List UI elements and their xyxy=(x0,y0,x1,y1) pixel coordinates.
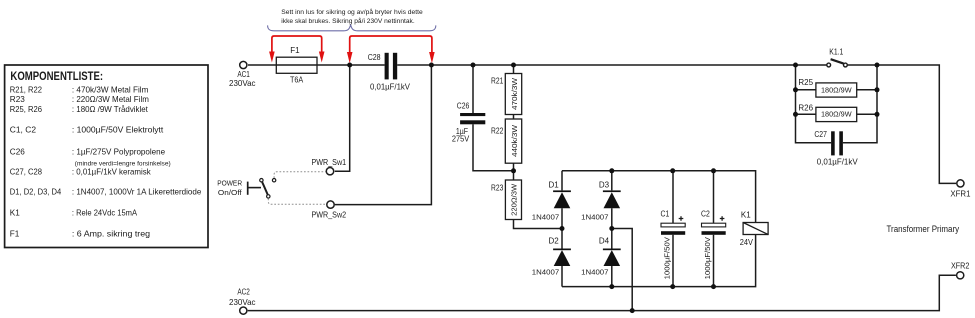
svg-text:C2: C2 xyxy=(701,210,710,219)
svg-text:Transformer Primary: Transformer Primary xyxy=(887,224,960,234)
svg-text:C26: C26 xyxy=(10,147,25,156)
svg-text:0,01µF/1kV: 0,01µF/1kV xyxy=(370,83,411,92)
svg-text:D2: D2 xyxy=(549,237,560,246)
svg-text:C1: C1 xyxy=(661,210,670,219)
svg-text:R25: R25 xyxy=(798,78,813,87)
svg-text:R25, R26: R25, R26 xyxy=(10,105,43,114)
svg-text:: 1000µF/50V Elektrolytt: : 1000µF/50V Elektrolytt xyxy=(72,126,164,135)
svg-text:1N4007: 1N4007 xyxy=(532,267,559,276)
svg-text:0,01µF/1kV: 0,01µF/1kV xyxy=(817,158,859,167)
svg-text:1N4007: 1N4007 xyxy=(581,267,608,276)
svg-text:AC2: AC2 xyxy=(237,288,250,297)
svg-text:440k/3W: 440k/3W xyxy=(512,125,519,157)
svg-text:PWR_Sw1: PWR_Sw1 xyxy=(312,158,347,167)
svg-text:: 1µF/275V Polypropolene: : 1µF/275V Polypropolene xyxy=(72,147,166,156)
svg-text:: 1N4007, 1000Vr 1A Likeretter: : 1N4007, 1000Vr 1A Likeretterdiode xyxy=(72,188,202,197)
svg-text:ikke skal brukes. Sikring på/i: ikke skal brukes. Sikring på/i 230V nett… xyxy=(281,17,415,25)
svg-text:T6A: T6A xyxy=(290,76,304,85)
svg-text:R21: R21 xyxy=(491,77,504,86)
svg-text:AC1: AC1 xyxy=(237,70,250,79)
svg-text:1000µF/50V: 1000µF/50V xyxy=(664,237,671,280)
svg-text:230Vac: 230Vac xyxy=(229,79,256,88)
svg-text:Sett inn lus for sikring og av: Sett inn lus for sikring og av/på bryter… xyxy=(281,8,423,16)
svg-text:230Vac: 230Vac xyxy=(229,298,256,307)
svg-text:D3: D3 xyxy=(599,180,610,189)
svg-text:1N4007: 1N4007 xyxy=(532,212,559,221)
svg-text:R22: R22 xyxy=(491,127,504,136)
svg-text:: 0,01µF/1kV keramisk: : 0,01µF/1kV keramisk xyxy=(72,168,152,177)
svg-text:D4: D4 xyxy=(599,237,610,246)
svg-text:: 6 Amp. sikring treg: : 6 Amp. sikring treg xyxy=(72,230,151,239)
svg-text:275V: 275V xyxy=(452,135,470,144)
svg-text:: 180Ω /9W Trådviklet: : 180Ω /9W Trådviklet xyxy=(72,104,149,114)
svg-text:180Ω/9W: 180Ω/9W xyxy=(821,85,852,94)
svg-text:: 220Ω/3W Metal Film: : 220Ω/3W Metal Film xyxy=(72,95,149,104)
svg-text:POWER: POWER xyxy=(217,178,242,187)
svg-text:KOMPONENTLISTE:: KOMPONENTLISTE: xyxy=(10,69,103,83)
svg-text:PWR_Sw2: PWR_Sw2 xyxy=(312,210,347,219)
svg-text:R26: R26 xyxy=(798,103,813,112)
svg-text:C1, C2: C1, C2 xyxy=(10,126,37,135)
svg-text:K1.1: K1.1 xyxy=(829,48,844,57)
svg-text:470k/3W: 470k/3W xyxy=(512,78,519,110)
svg-text:220Ω/3W: 220Ω/3W xyxy=(512,183,519,215)
svg-text:1N4007: 1N4007 xyxy=(581,212,608,221)
svg-text:On/Off: On/Off xyxy=(218,188,243,197)
svg-text:C28: C28 xyxy=(368,53,381,62)
svg-text:R23: R23 xyxy=(10,95,25,104)
svg-text:D1, D2, D3, D4: D1, D2, D3, D4 xyxy=(10,188,62,197)
svg-text:F1: F1 xyxy=(10,230,20,239)
svg-text:F1: F1 xyxy=(290,46,300,55)
svg-text:D1: D1 xyxy=(549,180,560,189)
svg-text:: Rele 24Vdc 15mA: : Rele 24Vdc 15mA xyxy=(72,208,138,217)
svg-text:(mindre verdi=lengre forsinkel: (mindre verdi=lengre forsinkelse) xyxy=(75,160,171,167)
svg-text:C27, C28: C27, C28 xyxy=(10,168,43,177)
svg-text:C27: C27 xyxy=(814,130,827,139)
svg-text:XFR1: XFR1 xyxy=(950,190,971,199)
svg-text:: 470k/3W Metal Film: : 470k/3W Metal Film xyxy=(72,86,149,95)
svg-text:C26: C26 xyxy=(457,102,470,111)
svg-text:24V: 24V xyxy=(740,238,754,247)
svg-text:R21, R22: R21, R22 xyxy=(10,86,43,95)
svg-text:R23: R23 xyxy=(491,184,504,193)
svg-text:K1: K1 xyxy=(10,208,20,217)
svg-text:1000µF/50V: 1000µF/50V xyxy=(705,237,712,280)
svg-text:XFR2: XFR2 xyxy=(951,262,970,271)
svg-text:180Ω/9W: 180Ω/9W xyxy=(821,110,852,119)
svg-text:K1: K1 xyxy=(741,211,751,220)
